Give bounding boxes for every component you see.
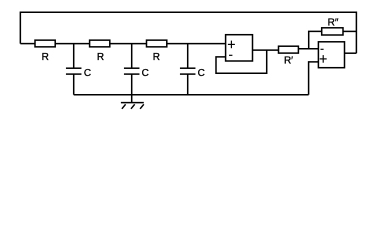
resistor R3 (147, 40, 167, 47)
wire R1 to R2 (55, 43, 89, 45)
capacitor C1 plates (66, 67, 82, 69)
capacitor C3 bottom lead (187, 74, 189, 95)
capacitor C1 bottom lead (73, 74, 75, 95)
capacitor C3 plates (180, 67, 196, 69)
svg-text:R: R (42, 52, 49, 63)
capacitor C2 plates (124, 67, 140, 69)
wire ladder input segment (20, 43, 35, 45)
resistor R' (279, 46, 299, 53)
wire R2 to R3 (110, 43, 147, 45)
resistor R2 (90, 40, 110, 47)
wire R'' right lead (343, 30, 356, 32)
op-amp U2 body (318, 42, 344, 68)
svg-text:R′: R′ (284, 56, 293, 67)
op-amp U1 - input symbol (229, 54, 232, 56)
svg-text:C: C (84, 68, 91, 79)
wire U1 output to R' (253, 49, 279, 51)
svg-text:C: C (198, 68, 205, 79)
op-amp U1 body (226, 35, 253, 61)
svg-text:R: R (97, 52, 104, 63)
resistor R1 (35, 40, 55, 47)
resistor R'' (322, 28, 343, 35)
wire R'' branch up from - input node (309, 31, 322, 48)
wire outer feedback loop: left vertical, top wire, right vertical (20, 12, 356, 53)
capacitor C3 top lead (187, 44, 189, 69)
svg-text:R: R (153, 52, 160, 63)
svg-text:R″: R″ (328, 18, 339, 29)
wire R3 to op-amp U1 + input (167, 43, 226, 45)
capacitor C2 bottom lead down to ground (131, 74, 133, 103)
wire U2 + input to ground rail (309, 62, 319, 95)
op-amp U2 - input symbol (321, 48, 324, 50)
capacitor C2 top lead (131, 44, 133, 69)
ground bar (121, 102, 144, 104)
op-amp U1 + input symbol (228, 43, 235, 45)
ground hatch 2 (131, 104, 135, 109)
capacitor C1 top lead (73, 44, 75, 69)
wire bottom rail (74, 94, 309, 96)
wire U2 output (345, 52, 357, 54)
ground hatch 1 (122, 104, 126, 109)
wire U1 - input feedback loop (216, 50, 267, 73)
op-amp U2 + input symbol (320, 58, 327, 60)
svg-text:C: C (142, 68, 149, 79)
ground hatch 3 (140, 104, 144, 109)
wire R' to op-amp U2 - input (298, 48, 318, 50)
